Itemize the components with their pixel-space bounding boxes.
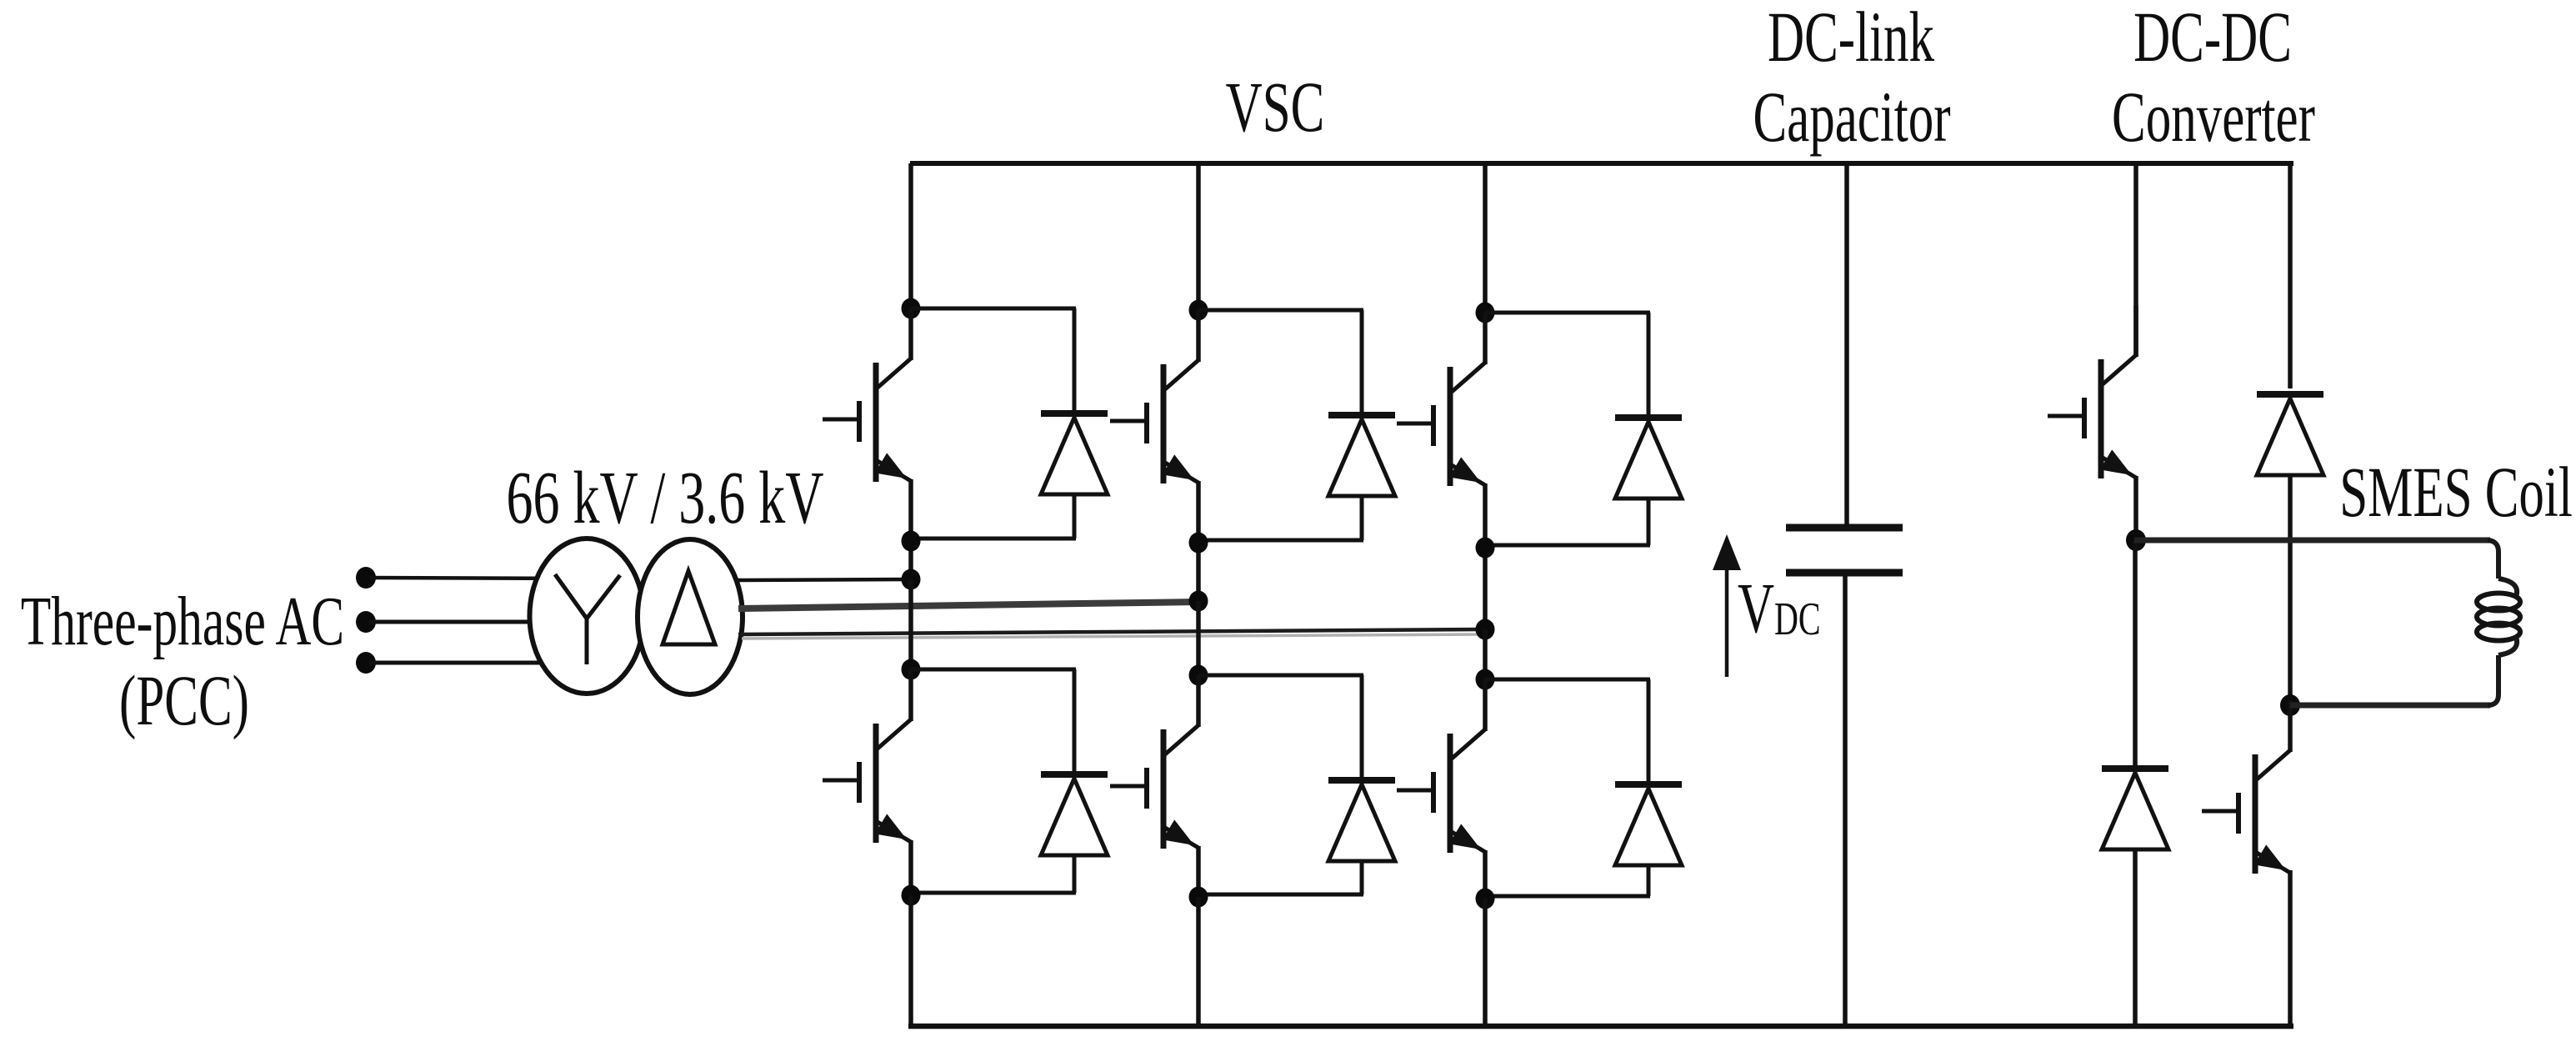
label DC-link <box>1768 0 1935 78</box>
wire coil top feed <box>2134 538 2490 544</box>
wire phase c input <box>369 661 587 665</box>
IGBT Q8 (DC-DC lower) <box>2202 700 2290 874</box>
node leg 3 upper collector junction <box>1476 303 1495 323</box>
node leg 1 upper collector junction <box>902 298 921 319</box>
wire leg 3 midsection <box>1483 629 1488 679</box>
node PCC terminal a <box>356 567 376 589</box>
wire leg 1 upper emitter <box>908 479 913 579</box>
wire DC-DC left branch to lower diode <box>2133 540 2138 766</box>
diode D8 (DC-DC lower) <box>2102 769 2168 849</box>
svg-text:Converter: Converter <box>2112 78 2315 158</box>
wire DC-DC lower emitter to bottom bus <box>2288 870 2293 1026</box>
wire leg 2 from top bus <box>1196 163 1201 310</box>
node PCC terminal c <box>356 652 376 674</box>
node leg 1 lower cell bottom junction <box>902 885 921 906</box>
IGBT Q7 (DC-DC upper) <box>2048 305 2136 478</box>
node leg 2 upper cell bottom junction <box>1189 533 1208 554</box>
node leg 2 upper collector junction <box>1189 300 1208 321</box>
wire leg 3 lower emitter <box>1483 850 1488 899</box>
inductor SMES coil <box>2477 540 2520 705</box>
node leg 3 phase connection <box>1476 619 1495 640</box>
wire capacitor bottom lead <box>1843 576 1848 1026</box>
transformer Delta symbol <box>663 571 715 644</box>
svg-text:Three-phase AC: Three-phase AC <box>21 582 344 659</box>
wire phase b to leg 2 (thick) <box>738 602 1198 609</box>
node leg 1 phase connection <box>902 569 921 590</box>
wire phase a input <box>369 578 587 579</box>
node leg 3 lower cell bottom junction <box>1476 889 1495 909</box>
svg-text:66 kV / 3.6 kV: 66 kV / 3.6 kV <box>506 455 823 539</box>
transformer secondary circle (Delta) <box>638 539 743 694</box>
wire leg 2 midsection <box>1196 601 1201 675</box>
label Converter <box>2112 78 2315 158</box>
capacitor C1 top plate <box>1786 524 1903 532</box>
node DC-DC emitter / coil+ junction <box>2126 529 2146 551</box>
label 66 kV / 3.6 kV <box>506 455 823 539</box>
svg-text:VSC: VSC <box>1226 68 1325 148</box>
wire DC-DC right branch upper <box>2288 163 2293 388</box>
wire coil bottom return <box>2290 703 2490 709</box>
wire leg 1 midsection <box>908 579 913 669</box>
freewheeling diode D1 (VSC leg 1 upper) <box>911 308 1108 539</box>
node leg 1 lower collector junction <box>902 659 921 680</box>
wire phase c to leg 3 <box>738 629 1485 634</box>
node leg 2 phase connection <box>1189 591 1208 612</box>
label Three-phase AC <box>21 582 344 659</box>
IGBT Q4 (VSC leg 1 lower) <box>823 669 911 843</box>
wire DC-DC left branch upper <box>2133 163 2138 357</box>
label DC-DC <box>2133 0 2292 78</box>
IGBT Q3 (VSC leg 3 upper) <box>1397 313 1485 486</box>
freewheeling diode D6 (VSC leg 3 lower) <box>1485 679 1682 896</box>
freewheeling diode D2 (VSC leg 2 upper) <box>1198 310 1395 540</box>
wire leg 2 upper emitter <box>1196 481 1201 601</box>
node coil- junction <box>2280 694 2300 716</box>
freewheeling diode D4 (VSC leg 1 lower) <box>911 669 1108 893</box>
node PCC terminal b <box>356 611 376 633</box>
node leg 2 lower collector junction <box>1189 665 1208 686</box>
wire leg 1 from top bus <box>908 163 913 308</box>
svg-text:Capacitor: Capacitor <box>1753 78 1950 158</box>
svg-text:SMES Coil: SMES Coil <box>2339 453 2573 533</box>
freewheeling diode D5 (VSC leg 2 lower) <box>1198 675 1395 894</box>
label SMES Coil <box>2339 453 2573 533</box>
freewheeling diode D3 (VSC leg 3 upper) <box>1485 313 1682 545</box>
label VDC <box>1738 569 1821 649</box>
diode D7 (DC-DC upper) <box>2257 394 2323 475</box>
node leg 3 lower collector junction <box>1476 669 1495 690</box>
transformer primary circle (Y) <box>530 539 644 694</box>
svg-text:DC-DC: DC-DC <box>2133 0 2292 78</box>
transformer Y symbol <box>555 574 620 664</box>
wire phase c ghost <box>742 634 1485 639</box>
wire top DC bus <box>910 161 2293 166</box>
IGBT Q2 (VSC leg 2 upper) <box>1110 310 1198 483</box>
wire leg 2 to bottom bus <box>1196 897 1201 1026</box>
wire leg 1 to bottom bus <box>908 895 913 1026</box>
node leg 3 upper cell bottom junction <box>1476 538 1495 559</box>
wire leg 3 to bottom bus <box>1483 899 1488 1026</box>
IGBT Q6 (VSC leg 3 lower) <box>1397 679 1485 853</box>
label (PCC) <box>119 662 249 741</box>
wire bottom DC bus <box>908 1024 2293 1029</box>
wire leg 3 from top bus <box>1483 163 1488 313</box>
wire capacitor top lead <box>1844 163 1849 524</box>
VDC arrow <box>1713 534 1741 677</box>
svg-text:DC-link: DC-link <box>1768 0 1935 78</box>
svg-text:(PCC): (PCC) <box>119 662 249 741</box>
wire leg 2 lower emitter <box>1196 846 1201 897</box>
wire leg 1 lower emitter <box>908 840 913 895</box>
wire phase b input <box>369 620 587 624</box>
label Capacitor <box>1753 78 1950 158</box>
label VSC <box>1226 68 1325 148</box>
wire DC-DC upper emitter to node <box>2133 476 2138 540</box>
capacitor C1 bottom plate <box>1786 569 1903 577</box>
node leg 2 lower cell bottom junction <box>1189 887 1208 908</box>
node leg 1 upper cell bottom junction <box>902 531 921 552</box>
wire phase a to leg 1 <box>737 579 911 580</box>
wire leg 3 upper emitter <box>1483 483 1488 629</box>
wire lower diode anode to bottom bus <box>2133 849 2138 1026</box>
wire upper diode anode to coil- node <box>2288 474 2293 705</box>
IGBT Q1 (VSC leg 1 upper) <box>823 308 911 482</box>
IGBT Q5 (VSC leg 2 lower) <box>1110 675 1198 849</box>
